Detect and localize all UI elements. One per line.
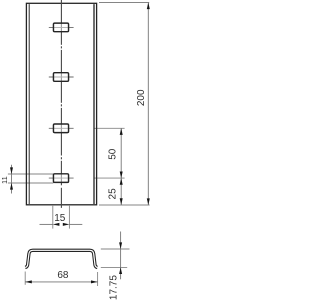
dim 68 line [25, 281, 97, 283]
dim 17.75 arrows [119, 242, 122, 249]
dim 15 arrows [53, 223, 60, 226]
slot 1 [53, 23, 68, 32]
dim 200 line [147, 3, 149, 206]
dim 50/25 extension lines (slot centerlines extended) [95, 127, 125, 129]
profile cross-section (hat channel) [25, 250, 97, 267]
svg-text:25: 25 [108, 188, 119, 200]
dim 11 arrows [10, 167, 13, 174]
dim 25 arrows [120, 178, 123, 185]
svg-text:50: 50 [108, 148, 119, 160]
slot 4 centerline [49, 177, 74, 179]
slot 3 [53, 124, 68, 133]
slot 1 centerline [49, 26, 74, 28]
strip outline [26, 3, 96, 205]
dim 15 extension lines [52, 206, 54, 229]
slot 2 centerline [49, 76, 74, 78]
dim 200 arrows [147, 3, 150, 10]
vertical centerline (dash-dot segments) [60, 0, 62, 45]
dim 68 arrows [25, 280, 32, 283]
svg-text:17.75: 17.75 [109, 275, 120, 300]
right bend line [93, 4, 95, 204]
dim 25 line [120, 178, 122, 205]
dim 11 extension lines [8, 173, 54, 175]
slot 4 [53, 174, 68, 183]
dim 17.75 extension lines [101, 248, 130, 250]
dim 200 extension lines [99, 2, 149, 4]
dim 11 line [11, 165, 13, 194]
dim 17.75 line [120, 232, 122, 280]
dim 15 line (two outer segments) [40, 223, 53, 225]
svg-text:11: 11 [0, 176, 9, 184]
svg-text:15: 15 [54, 213, 66, 224]
slot 3 centerline [49, 127, 74, 129]
dim 68 extension lines [24, 272, 26, 285]
left bend line [28, 4, 30, 204]
slot 2 [53, 73, 68, 82]
dim 50 arrows [120, 128, 123, 135]
svg-text:68: 68 [57, 270, 69, 281]
svg-text:200: 200 [136, 89, 147, 106]
dim 50 line [120, 128, 122, 178]
